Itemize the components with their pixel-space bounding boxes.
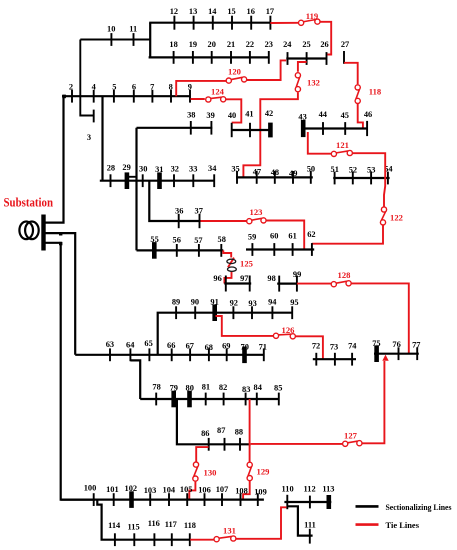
node bus 48 tick	[274, 171, 276, 184]
svg-text:100: 100	[84, 484, 97, 493]
switch 129	[247, 462, 252, 481]
wire line buses 89-95 with riser to 63-71 line	[158, 313, 293, 355]
svg-text:24: 24	[283, 40, 292, 49]
svg-text:43: 43	[298, 113, 306, 122]
wire substation bar to feeder-3 riser	[44, 243, 95, 500]
node bus 110 tick	[286, 495, 288, 509]
svg-text:92: 92	[230, 299, 238, 308]
node bus 13 tick	[193, 16, 195, 30]
wire branch bus30 to 36-37 line	[149, 181, 200, 221]
svg-text:12: 12	[170, 7, 178, 16]
svg-text:126: 126	[282, 325, 296, 335]
svg-text:45: 45	[341, 111, 349, 120]
wire line buses 98-99	[277, 283, 297, 285]
wire line buses 78-85	[140, 398, 279, 400]
svg-text:Substation: Substation	[4, 195, 54, 210]
node bus 11 tick	[133, 33, 135, 46]
node bus 81 tick	[205, 393, 207, 406]
svg-text:122: 122	[390, 212, 403, 222]
svg-text:6: 6	[132, 83, 136, 92]
svg-text:28: 28	[107, 163, 115, 172]
node bus 14 tick	[212, 16, 214, 30]
node bus 23 tick	[268, 51, 270, 64]
node bus 96 tick	[225, 276, 227, 292]
wire line buses 75-77	[374, 353, 419, 355]
node bus 7 tick	[151, 90, 153, 103]
node bus 67 tick	[189, 348, 191, 361]
svg-text:20: 20	[208, 40, 216, 49]
node bus 15 tick	[231, 16, 233, 30]
node bus 57 tick	[198, 244, 200, 257]
svg-text:85: 85	[274, 384, 282, 393]
node bus 27 tick	[343, 51, 345, 64]
node bus 25 tick	[306, 52, 308, 65]
node bus 50 tick	[310, 171, 312, 184]
svg-text:112: 112	[304, 485, 316, 494]
tie line 124 wire (9 to 40)	[191, 99, 242, 123]
svg-text:77: 77	[412, 340, 420, 349]
svg-text:69: 69	[222, 341, 230, 350]
node bus 59 tick	[251, 243, 253, 256]
node bus 6 tick	[133, 90, 135, 103]
svg-text:59: 59	[248, 232, 256, 241]
tie line 131 wire (118 to 110)	[190, 507, 286, 539]
node bus 93 tick	[251, 306, 253, 319]
node bus 46 tick	[366, 121, 368, 136]
tie line 132 wire (25 to 35)	[238, 62, 307, 177]
wire branch bus 64 to 78-85 line	[130, 360, 140, 399]
node bus 24 tick	[287, 52, 289, 65]
svg-text:49: 49	[289, 169, 297, 178]
node bus 2 tick	[71, 90, 73, 103]
svg-text:34: 34	[208, 164, 217, 173]
node bus 60 tick	[273, 243, 275, 256]
wire branch to bus 3	[80, 96, 93, 115]
node bus 113 tick	[326, 495, 331, 509]
node bus 47 tick	[256, 171, 258, 184]
svg-text:40: 40	[228, 111, 236, 120]
node bus 38 tick	[190, 121, 192, 135]
svg-text:130: 130	[204, 467, 217, 477]
node bus 22 tick	[249, 51, 251, 64]
wire line buses 28-34	[100, 180, 215, 182]
node bus 4 tick	[93, 90, 95, 103]
wire substation bar to feeder-2 riser	[44, 233, 75, 355]
svg-text:38: 38	[187, 110, 195, 119]
tie line 118 wire (27 to 46)	[344, 63, 363, 129]
node bus 54 tick	[387, 172, 389, 185]
svg-text:124: 124	[211, 86, 225, 96]
tie line 128 wire (99 to 76-77)	[297, 283, 409, 353]
node bus 73 tick	[334, 353, 336, 366]
node bus 89 tick	[175, 306, 177, 319]
node bus 10 tick	[110, 33, 112, 46]
node bus 53 tick	[370, 172, 372, 185]
svg-text:30: 30	[139, 165, 147, 174]
node bus 74 tick	[351, 353, 353, 366]
svg-text:80: 80	[186, 384, 194, 393]
svg-text:103: 103	[144, 486, 157, 495]
node bus 99 tick	[296, 276, 298, 292]
svg-text:81: 81	[202, 383, 210, 392]
junction dot A (trunk crossing y=233)	[59, 232, 62, 235]
svg-text:51: 51	[331, 165, 339, 174]
switch 132	[295, 73, 300, 92]
node bus 58 tick	[220, 244, 222, 257]
node bus 29 tick	[125, 172, 130, 189]
tie line 121 wire (43 to 54)	[308, 132, 385, 172]
node bus 49 tick	[292, 171, 294, 184]
wire branch bus 79 to 86-88 line	[177, 400, 251, 445]
node bus 51 tick	[334, 172, 336, 185]
tie line 127 arrowhead into 75-76 line	[382, 355, 388, 361]
junction dot C (feeder-1 corner)	[62, 95, 66, 99]
svg-text:118: 118	[369, 86, 382, 96]
svg-text:57: 57	[194, 236, 202, 245]
svg-text:44: 44	[319, 110, 328, 119]
legend tie line sample	[356, 523, 379, 526]
svg-text:32: 32	[171, 164, 179, 173]
svg-text:31: 31	[155, 165, 163, 174]
svg-text:127: 127	[344, 430, 358, 440]
svg-text:64: 64	[126, 340, 135, 349]
svg-text:Tie Lines: Tie Lines	[386, 520, 420, 530]
node bus 112 tick	[309, 496, 311, 509]
svg-text:118: 118	[184, 521, 196, 530]
node bus 18 tick	[173, 51, 175, 64]
switch 130	[193, 462, 199, 481]
svg-text:3: 3	[87, 133, 91, 142]
wire riser bus29 to 38-39 and 55 lines	[135, 128, 137, 251]
svg-text:62: 62	[307, 230, 315, 239]
node bus 102 tick	[129, 491, 134, 508]
svg-text:104: 104	[163, 486, 176, 495]
node bus 69 tick	[226, 348, 228, 361]
svg-text:52: 52	[349, 165, 357, 174]
node bus 26 tick	[326, 52, 328, 65]
svg-text:119: 119	[306, 11, 318, 21]
switch 120	[226, 77, 247, 83]
svg-text:60: 60	[270, 231, 278, 240]
wire line buses 12-17	[149, 22, 270, 24]
node bus 28 tick	[110, 174, 112, 187]
svg-text:106: 106	[198, 486, 211, 495]
svg-text:87: 87	[217, 426, 225, 435]
node bus 56 tick	[176, 244, 178, 257]
node bus 21 tick	[230, 51, 232, 64]
node bus 44 tick	[322, 122, 324, 135]
svg-text:14: 14	[208, 7, 217, 16]
svg-text:29: 29	[122, 163, 130, 172]
svg-text:91: 91	[210, 297, 218, 306]
svg-text:123: 123	[250, 207, 263, 217]
node bus 78 tick	[155, 393, 157, 406]
tie line 127 wire (88 junction to 75-76)	[251, 361, 385, 444]
node bus 31 tick	[157, 172, 162, 189]
svg-text:19: 19	[189, 40, 197, 49]
node bus 30 tick	[142, 174, 144, 187]
node bus 42 tick	[268, 123, 273, 138]
svg-text:46: 46	[364, 110, 372, 119]
svg-text:110: 110	[282, 485, 294, 494]
node bus 33 tick	[192, 174, 194, 187]
svg-text:113: 113	[322, 485, 334, 494]
node bus 83 tick	[245, 393, 247, 406]
node bus 101 tick	[113, 493, 115, 506]
svg-text:86: 86	[201, 429, 209, 438]
svg-text:96: 96	[213, 274, 221, 283]
node bus 72 tick	[315, 353, 317, 366]
svg-text:4: 4	[92, 83, 97, 92]
node bus 84 tick	[256, 393, 258, 406]
node bus 64 tick	[129, 348, 131, 361]
svg-text:97: 97	[240, 274, 248, 283]
wire line buses 96-97	[224, 282, 251, 284]
svg-text:15: 15	[227, 7, 235, 16]
node bus 61 tick	[292, 243, 294, 256]
svg-text:53: 53	[367, 166, 375, 175]
svg-text:94: 94	[268, 298, 277, 307]
svg-text:18: 18	[169, 40, 177, 49]
svg-text:70: 70	[241, 342, 249, 351]
svg-text:36: 36	[175, 207, 183, 216]
node bus 117 tick	[171, 533, 173, 546]
wire main feeder line (buses 2-9)	[62, 95, 191, 97]
wire riser bus 100 line to 114-118 line	[97, 500, 190, 540]
wire line buses 59-62	[246, 248, 314, 250]
node bus 32 tick	[173, 174, 175, 187]
node bus 95 tick	[291, 306, 293, 319]
svg-text:42: 42	[265, 109, 273, 118]
wire line buses 35,47-50	[236, 176, 313, 178]
svg-text:25: 25	[302, 40, 310, 49]
svg-text:35: 35	[231, 165, 239, 174]
wire line buses 24-26	[286, 57, 326, 59]
node bus 108 tick	[240, 493, 242, 506]
svg-text:66: 66	[167, 341, 175, 350]
wire line buses 51-54	[333, 177, 389, 179]
svg-text:74: 74	[348, 342, 357, 351]
tie line 122 wire (54 to 62)	[312, 172, 385, 244]
node bus 104 tick	[168, 493, 170, 506]
node bus 9 tick	[189, 90, 191, 103]
svg-text:5: 5	[112, 83, 116, 92]
node bus 86 tick	[208, 438, 210, 451]
svg-text:73: 73	[330, 342, 338, 351]
node bus 17 tick	[269, 16, 271, 30]
node bus 87 tick	[224, 438, 226, 451]
legend sectionalizing line sample	[356, 505, 379, 508]
svg-text:131: 131	[223, 525, 236, 535]
svg-text:108: 108	[235, 487, 248, 496]
node bus 36 tick	[178, 214, 180, 228]
svg-text:121: 121	[336, 140, 349, 150]
node bus 97 tick	[249, 276, 251, 292]
svg-text:26: 26	[320, 40, 328, 49]
wire line buses 18-23	[149, 56, 269, 58]
switch 127	[343, 441, 362, 447]
svg-text:105: 105	[180, 485, 193, 494]
wire riser joining 12-17 and 18-23 lines	[149, 23, 151, 58]
svg-text:75: 75	[372, 339, 380, 348]
substation bus bar (bus 1)	[41, 215, 45, 251]
svg-text:13: 13	[189, 7, 197, 16]
svg-text:58: 58	[218, 235, 226, 244]
node bus 80 tick	[187, 391, 192, 408]
svg-text:102: 102	[125, 484, 138, 493]
svg-text:98: 98	[267, 274, 275, 283]
svg-text:47: 47	[253, 168, 261, 177]
tie line 129 wire (83 to 108-109)	[243, 481, 250, 500]
wire substation bar to feeder-1 riser	[44, 96, 64, 222]
svg-text:50: 50	[307, 165, 315, 174]
switch 123	[247, 218, 266, 224]
node bus 65 tick	[148, 348, 150, 361]
node bus 77 tick	[416, 347, 418, 360]
wire line buses 63-71	[75, 354, 264, 356]
svg-text:8: 8	[169, 83, 173, 92]
node bus 70 tick	[242, 347, 247, 364]
svg-text:120: 120	[228, 67, 241, 77]
node bus 114 tick	[114, 533, 116, 546]
node bus 71 tick	[263, 348, 265, 361]
wire riser main feeder to bus 28 line	[101, 96, 103, 181]
svg-text:90: 90	[191, 298, 199, 307]
svg-text:56: 56	[173, 236, 181, 245]
node bus 90 tick	[194, 306, 196, 319]
svg-text:37: 37	[195, 207, 203, 216]
svg-text:83: 83	[242, 385, 250, 394]
svg-text:Sectionalizing Lines: Sectionalizing Lines	[386, 502, 453, 512]
node bus 34 tick	[213, 174, 215, 187]
tie line 129/127 riser from bus 83	[249, 399, 251, 462]
node bus 8 tick	[170, 90, 172, 103]
svg-text:48: 48	[271, 168, 279, 177]
node bus 92 tick	[232, 306, 234, 319]
svg-text:68: 68	[205, 343, 213, 352]
transformer (substation source) symbol	[19, 222, 38, 240]
node bus 16 tick	[250, 16, 252, 30]
svg-text:23: 23	[265, 40, 273, 49]
wire line buses 100-109	[61, 499, 264, 501]
svg-text:128: 128	[338, 270, 352, 280]
switch 128	[331, 281, 351, 287]
svg-text:82: 82	[219, 383, 227, 392]
wire line buses 110,112,113	[284, 501, 331, 503]
wire stub bus 29 to riser	[128, 176, 137, 178]
svg-text:33: 33	[189, 164, 197, 173]
svg-text:72: 72	[312, 341, 320, 350]
svg-text:88: 88	[235, 428, 243, 437]
svg-text:65: 65	[144, 339, 152, 348]
node bus 94 tick	[271, 306, 273, 319]
node bus 100 tick	[93, 493, 95, 506]
svg-text:89: 89	[172, 298, 180, 307]
svg-text:16: 16	[247, 7, 255, 16]
node bus 68 tick	[208, 348, 210, 361]
node bus 103 tick	[149, 493, 151, 506]
wire riser bus area to 10-11 line	[79, 40, 81, 97]
tie line 130 wire (86 to 105)	[189, 447, 208, 500]
node bus 75 tick	[374, 345, 379, 362]
svg-text:61: 61	[288, 231, 296, 240]
tie line 123 wire (37 to 61-62)	[201, 221, 305, 250]
svg-text:71: 71	[259, 342, 267, 351]
svg-text:101: 101	[106, 485, 119, 494]
svg-text:125: 125	[240, 258, 253, 268]
svg-text:10: 10	[107, 24, 115, 33]
svg-text:78: 78	[152, 383, 160, 392]
svg-text:22: 22	[246, 40, 254, 49]
node bus 63 tick	[109, 348, 111, 361]
svg-text:76: 76	[392, 340, 400, 349]
node bus 82 tick	[223, 393, 225, 406]
node bus 118 tick	[189, 533, 191, 546]
wire branch bus 110 to bus 111	[287, 506, 313, 535]
svg-text:39: 39	[206, 111, 214, 120]
switch 121	[331, 150, 352, 156]
switch 124	[206, 97, 226, 102]
svg-text:7: 7	[150, 83, 154, 92]
node bus 76 tick	[398, 347, 400, 360]
svg-text:17: 17	[266, 7, 274, 16]
junction dot B (trunk corner y=243)	[59, 242, 62, 245]
node bus 19 tick	[192, 51, 194, 64]
switch 119	[299, 19, 321, 25]
tie line 125 wire (58 to 96)	[223, 250, 234, 283]
switch 125	[227, 259, 236, 271]
svg-text:11: 11	[129, 24, 137, 33]
svg-text:114: 114	[108, 521, 121, 530]
node bus 40 tick	[231, 123, 233, 137]
svg-text:107: 107	[216, 485, 229, 494]
svg-text:132: 132	[307, 77, 320, 87]
node bus 91 tick	[212, 304, 217, 321]
node bus 62 tick	[311, 243, 313, 256]
switch 118	[355, 85, 360, 104]
node bus 3 tick	[93, 110, 95, 123]
svg-text:79: 79	[170, 384, 178, 393]
node bus 115 tick	[133, 533, 135, 546]
svg-text:67: 67	[186, 341, 194, 350]
node bus 43 tick	[301, 120, 306, 137]
tie line 126 wire (91 to 72-73)	[216, 316, 323, 359]
node bus 85 tick	[278, 393, 280, 406]
switch 126	[273, 333, 295, 339]
svg-text:111: 111	[304, 520, 316, 529]
node bus 88 tick	[239, 438, 241, 451]
svg-text:116: 116	[148, 519, 160, 528]
svg-text:9: 9	[188, 83, 192, 92]
node bus 111 tick	[309, 529, 311, 544]
node bus 35 tick	[236, 171, 238, 184]
wire line buses 43-46	[301, 127, 368, 129]
node bus 79 tick	[171, 391, 176, 408]
node bus 98 tick	[278, 276, 280, 292]
node bus 109 tick	[257, 493, 259, 506]
svg-text:2: 2	[69, 83, 73, 92]
node bus 116 tick	[153, 533, 155, 546]
node bus 45 tick	[344, 122, 346, 135]
node bus 12 tick	[173, 16, 175, 30]
node bus 5 tick	[113, 90, 115, 103]
switch 122	[380, 207, 386, 225]
svg-text:41: 41	[245, 110, 253, 119]
node bus 39 tick	[210, 121, 212, 135]
node bus 41 tick	[249, 123, 251, 137]
switch 131	[214, 536, 236, 542]
node bus 20 tick	[211, 51, 213, 64]
